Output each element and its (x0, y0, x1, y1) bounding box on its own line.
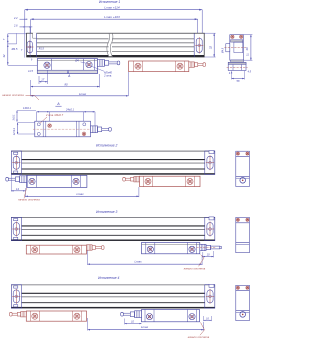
dimension Lmax +114 (25, 10, 202, 34)
cable connector left исполнение 2 (20, 176, 27, 183)
section view middle gray band (231, 60, 244, 63)
cable connector (189, 62, 195, 67)
reading head исполнение 1 (37, 59, 97, 74)
cable connector right исполнение 3 (200, 244, 206, 250)
view A red centerline (33, 128, 92, 130)
исполнение 3: left cap mounting slot (12, 222, 20, 237)
view A corner hole BL (37, 132, 40, 135)
svg-text:Lmax +114: Lmax +114 (104, 6, 119, 10)
svg-text:начало отсчета: начало отсчета (188, 336, 210, 339)
исполнение 3: scale body extrusion outline (11, 217, 215, 240)
body stripe lines исполнение 1 (27, 39, 205, 57)
svg-text:Исполнение 2: Исполнение 2 (96, 143, 117, 147)
исполнение 3: end view head part (236, 242, 250, 244)
cable connector left исполнение 4 (135, 311, 142, 318)
svg-text:24±0.1: 24±0.1 (65, 108, 74, 112)
phantom head (red) исполнение 3 (26, 245, 86, 254)
head left screw M5 (44, 62, 50, 68)
section view red centerline (224, 46, 246, 48)
svg-text:начало отсчета: начало отсчета (184, 267, 206, 270)
svg-text:12±0.1: 12±0.1 (13, 127, 16, 135)
svg-text:3±0.1: 3±0.1 (12, 114, 15, 121)
svg-text:2 отв. М4х0.7: 2 отв. М4х0.7 (45, 113, 64, 117)
view A M4 hole 2 (red) (82, 132, 86, 136)
dimension 80 (head length) (31, 86, 100, 88)
dimension Lmax исполнение 2 (25, 195, 138, 197)
исполнение 4: right cap mounting slot (206, 289, 214, 304)
section view head red centerline (227, 66, 248, 68)
исполнение 4: body stripe lines (11, 285, 215, 308)
svg-text:17: 17 (41, 78, 44, 82)
svg-text:14±0.1: 14±0.1 (23, 106, 31, 110)
reading head исполнение 4 right screw (189, 314, 195, 320)
cable connector (91, 126, 98, 133)
исполнение 3: left end cap (11, 217, 21, 240)
dimension Lmax (bottom) (31, 95, 129, 97)
section view A-A: body cross-section (230, 35, 244, 61)
исполнение 2: right cap mounting slot (206, 155, 214, 170)
body profile исполнение 1 (27, 33, 205, 57)
phantom head left screw (red) исполнение 2 (145, 178, 151, 184)
reading head исполнение 3 (142, 243, 200, 254)
dimension 2.2 (left offset) (20, 18, 28, 20)
section view inner cavity (234, 42, 243, 53)
dimension Lmax +103 (31, 19, 198, 33)
svg-text:Исполнение 3: Исполнение 3 (96, 210, 117, 214)
svg-text:Lmax: Lmax (79, 92, 87, 96)
vertical dimension 3±0.1 (view A left) (16, 111, 18, 122)
svg-text:Исполнение 1: Исполнение 1 (99, 0, 120, 4)
body right end cap исполнение 1 (193, 33, 195, 57)
right cap slot исполнение 1 (195, 37, 203, 53)
section view head cross-section (228, 62, 246, 70)
view A: head top view outline (35, 121, 91, 137)
svg-text:Исполнение 4: Исполнение 4 (98, 276, 119, 280)
исполнение 2: end view top screws (236, 152, 239, 155)
phantom head left screw (red) исполнение 3 (32, 247, 38, 253)
dimension 14±0.1 / 24±0.1 above view A (37, 111, 95, 113)
исполнение 3: end view body (236, 217, 250, 252)
исполнение 2: left end cap (11, 151, 21, 174)
исполнение 4: left cap mounting slot (12, 289, 20, 304)
svg-text:Lmax: Lmax (76, 192, 84, 196)
svg-text:11.5: 11.5 (28, 70, 33, 73)
svg-text:32: 32 (209, 46, 213, 50)
phantom connector исполнение 2 (134, 176, 140, 181)
dimension 16 (right, исполнение 4) (204, 319, 212, 321)
svg-text:2 отв.: 2 отв. (103, 74, 112, 78)
reading head исполнение 3 right screw (189, 246, 195, 252)
исполнение 4: cable gland circle (240, 312, 246, 318)
phantom head right screw (red) исполнение 3 (74, 247, 80, 253)
extension line x16.5 (left) (16, 33, 18, 44)
cable connector (98, 60, 105, 67)
reading head исполнение 3 left screw (147, 246, 153, 252)
body top-left corner notch (33, 33, 37, 39)
phantom cable connector (red) исполнение 3 (87, 245, 93, 250)
dimension 10 (connector) исполнение 3 (203, 256, 214, 258)
dimension 32 (body height, right) (204, 33, 215, 57)
svg-text:начало отсчета: начало отсчета (18, 199, 40, 202)
section view top screws (red) (231, 35, 234, 38)
исполнение 3: body stripe lines (11, 218, 215, 241)
head right screw M5 (86, 62, 92, 68)
reading head исполнение 2 right screw (73, 178, 79, 184)
svg-text:2.2: 2.2 (13, 17, 18, 20)
svg-text:Ø4: Ø4 (74, 59, 79, 63)
исполнение 4: right end cap (205, 285, 215, 308)
svg-text:40: 40 (245, 47, 249, 50)
svg-text:Lmax +103: Lmax +103 (104, 15, 120, 19)
svg-text:R1.5: R1.5 (39, 48, 45, 51)
red centerline through connector исполнение 3 (197, 247, 217, 249)
reading head исполнение 4 left screw (146, 314, 152, 320)
dimension Lmax исполнение 4 (88, 329, 204, 331)
body left end cap исполнение 1 (36, 33, 38, 57)
view A M4 hole (red) (48, 124, 52, 128)
svg-text:Lmax: Lmax (134, 259, 142, 263)
svg-text:начало отсчета: начало отсчета (2, 94, 24, 97)
исполнение 3: end view top screws (236, 218, 239, 221)
исполнение 3: right cap mounting slot (206, 222, 214, 237)
исполнение 4: end view body (236, 285, 250, 320)
phantom head (red) исполнение 2 (140, 176, 201, 186)
исполнение 4: left end cap (11, 285, 21, 308)
view A corner hole TR (83, 123, 86, 126)
svg-text:Ø4.5: Ø4.5 (222, 47, 225, 54)
исполнение 3: right end cap (205, 217, 215, 240)
svg-text:2.6: 2.6 (13, 25, 18, 28)
dimension 58 (bottom of section) (232, 78, 245, 80)
svg-text:Lmax: Lmax (141, 325, 149, 329)
svg-text:А: А (56, 102, 60, 106)
phantom head at right (red) исполнение 1 (129, 61, 189, 72)
исполнение 2: left cap mounting slot (12, 155, 20, 170)
phantom head (red) исполнение 4 (26, 311, 86, 321)
phantom head right screw (red) исполнение 2 (187, 178, 193, 184)
svg-text:Ø4.5: Ø4.5 (11, 47, 18, 51)
dimension 40 (section height) (250, 35, 252, 61)
dimension 2.6 (left offset) (20, 26, 33, 28)
left cap slot исполнение 1 (26, 40, 33, 54)
svg-text:32: 32 (2, 54, 6, 57)
dimension 17 (below head) (39, 81, 48, 83)
dimension 14 (left, исполнение 2) (11, 190, 25, 192)
исполнение 2: cable gland circle (240, 178, 246, 184)
phantom head left screw (red) исполнение 4 (32, 313, 38, 319)
vertical dimension 12±0.1 (view A left) (17, 123, 19, 134)
view A corner hole TL (37, 123, 40, 126)
phantom head right screw (red) исполнение 4 (74, 313, 80, 319)
phantom cable connector left (red) исполнение 4 (21, 311, 27, 316)
dimension 10 (connector) исполнение 4 (125, 323, 142, 325)
svg-text:80: 80 (64, 83, 68, 87)
исполнение 2: body stripe lines (11, 151, 215, 174)
reading head исполнение 2 (27, 175, 87, 187)
vertical dimension chain left (7 / 32) (8, 34, 37, 66)
исполнение 4: end view top screws (236, 286, 239, 289)
исполнение 2: end view body (236, 151, 250, 186)
phantom head left screw (red) (135, 63, 141, 69)
dimension Lmax исполнение 3 (88, 263, 203, 265)
reading head исполнение 4 (142, 310, 200, 322)
reading head исполнение 2 left screw (29, 178, 35, 184)
break lines in body (107, 33, 113, 57)
section view left protrusion (cable entry) (226, 44, 230, 52)
phantom head right screw (red) (177, 63, 183, 69)
extension lines through body (left) (24, 33, 26, 57)
исполнение 4: scale body extrusion outline (11, 285, 215, 308)
исполнение 2: end view head part (236, 175, 250, 177)
исполнение 2: scale body extrusion outline (11, 151, 215, 174)
section view gray band top (231, 40, 243, 42)
исполнение 2: right end cap (205, 151, 215, 174)
исполнение 4: end view head part (236, 310, 250, 312)
